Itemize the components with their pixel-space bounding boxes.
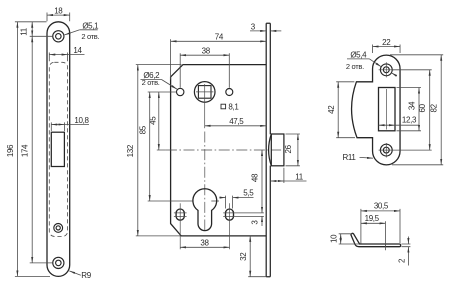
dim 10,8	[51, 122, 89, 131]
dim 30,5	[361, 209, 400, 244]
dim 19,5	[361, 221, 386, 250]
dim 18	[47, 13, 70, 22]
svg-text:Ø5,1: Ø5,1	[82, 22, 99, 31]
dim 47,5	[205, 125, 267, 127]
latch cutout	[51, 132, 64, 166]
svg-text:18: 18	[54, 6, 63, 15]
dim 48	[261, 150, 263, 213]
svg-text:8,1: 8,1	[228, 102, 239, 111]
label square 8,1	[221, 104, 226, 109]
label R9	[69, 271, 81, 275]
svg-text:12,3: 12,3	[402, 116, 417, 125]
svg-text:60: 60	[418, 103, 427, 112]
strike plate outline	[352, 55, 401, 165]
dim 5,5	[219, 196, 253, 209]
svg-text:19,5: 19,5	[365, 214, 380, 223]
dim 11 latch	[270, 168, 306, 183]
dim 14	[49, 53, 84, 62]
svg-text:R11: R11	[343, 153, 357, 162]
euro cylinder hole	[193, 189, 217, 231]
dim 196	[15, 22, 50, 277]
dim 22	[373, 45, 401, 54]
svg-text:R9: R9	[81, 271, 91, 280]
fixing slot right	[226, 209, 234, 220]
hole Ø6,2 left	[177, 88, 184, 95]
svg-text:38: 38	[200, 239, 209, 248]
slot left centermarks	[174, 203, 187, 249]
dim 38 bottom	[180, 246, 229, 248]
dim 32	[248, 236, 266, 277]
svg-text:34: 34	[407, 101, 416, 110]
svg-text:3: 3	[250, 220, 259, 225]
svg-text:85: 85	[138, 125, 147, 134]
svg-text:32: 32	[239, 252, 248, 261]
label R11	[360, 156, 373, 159]
dim 11	[31, 22, 33, 37]
faceplate (side)	[266, 23, 270, 277]
dim 74	[171, 39, 267, 79]
small middle hole	[54, 224, 63, 233]
dim 26	[286, 134, 300, 166]
label Ø5,4 2 отв.	[347, 59, 397, 76]
dim 34	[397, 88, 422, 131]
faceplate outline	[47, 22, 70, 277]
svg-text:30,5: 30,5	[374, 202, 389, 211]
svg-text:82: 82	[429, 103, 438, 112]
strike profile outline	[351, 233, 401, 246]
svg-text:132: 132	[126, 144, 135, 157]
dim 60	[393, 70, 432, 150]
hidden lock body (dashed)	[49, 62, 67, 236]
svg-text:2 отв.: 2 отв.	[142, 78, 160, 87]
svg-text:42: 42	[327, 105, 336, 114]
latch bolt	[269, 134, 284, 166]
slot right centermarks	[223, 203, 264, 249]
svg-text:48: 48	[251, 173, 260, 182]
top screw hole	[53, 31, 64, 42]
dim 2	[402, 237, 411, 266]
svg-text:11: 11	[20, 27, 29, 36]
strike latch opening	[379, 88, 396, 131]
svg-text:26: 26	[284, 144, 293, 153]
dim 10	[339, 234, 359, 244]
strike top hole	[380, 64, 392, 76]
strike opening centerline	[386, 89, 388, 130]
dim 38 top	[180, 53, 229, 88]
svg-text:5,5: 5,5	[243, 188, 254, 197]
label Ø5,1 2 отв.	[65, 30, 98, 35]
dim 174	[30, 36, 53, 263]
dim 132	[136, 65, 182, 236]
fixing slot left	[176, 209, 184, 220]
svg-text:3: 3	[251, 22, 256, 31]
dim 85	[148, 92, 219, 201]
svg-text:22: 22	[382, 38, 391, 47]
svg-text:2 отв.: 2 отв.	[346, 62, 364, 71]
lock body outline	[171, 65, 267, 236]
centerline cylinder axis	[204, 132, 206, 232]
svg-text:2 отв.: 2 отв.	[81, 32, 99, 41]
svg-text:10: 10	[329, 234, 338, 243]
dim 12,3	[379, 124, 420, 126]
bottom screw hole	[53, 257, 64, 268]
svg-text:174: 174	[21, 144, 30, 157]
strike top hole centermarks	[379, 62, 394, 77]
svg-text:11: 11	[295, 173, 304, 182]
svg-text:196: 196	[6, 144, 15, 157]
label Ø6,2 2 отв.	[141, 80, 177, 90]
svg-text:47,5: 47,5	[229, 117, 244, 126]
svg-text:74: 74	[215, 33, 224, 42]
dim 42	[336, 82, 355, 138]
dim 45	[148, 92, 177, 150]
svg-text:10,8: 10,8	[74, 116, 89, 125]
hole Ø6,2 right	[226, 89, 233, 96]
spindle square 8,1	[198, 86, 211, 99]
dim 82	[390, 55, 443, 165]
svg-text:38: 38	[202, 46, 211, 55]
svg-text:14: 14	[73, 46, 82, 55]
svg-text:Ø5,4: Ø5,4	[350, 51, 367, 60]
spindle follower circle	[194, 82, 215, 103]
centerline latch axis	[166, 149, 281, 151]
profile seam line	[384, 244, 386, 247]
spindle centerlines	[196, 84, 213, 128]
dim 3 slot lines	[261, 216, 263, 226]
svg-text:2: 2	[398, 258, 407, 263]
dim 3 faceplate thickness	[250, 30, 281, 32]
strike bottom hole	[380, 144, 392, 156]
strike bottom hole centermarks	[379, 143, 393, 158]
